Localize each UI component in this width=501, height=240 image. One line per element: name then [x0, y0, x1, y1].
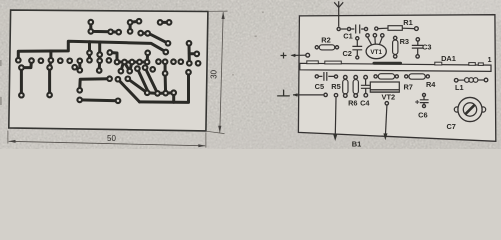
resistor R4 body [409, 74, 425, 79]
paper background [0, 0, 501, 149]
pad C5 right [334, 75, 337, 78]
wire: knot riser 1 [121, 62, 124, 71]
transistor VT1 legs [368, 37, 383, 45]
resistor R1 body [388, 26, 402, 31]
wire: ground lead line [293, 94, 323, 96]
pad R1 left [375, 27, 378, 30]
pad R2 right [335, 46, 338, 49]
resistor R6 body [353, 80, 358, 94]
svg-text:C7: C7 [446, 122, 455, 131]
plus supply arrowhead [291, 54, 296, 57]
resistor R2 body [319, 45, 334, 50]
wire: stub trace to pad x50.9 [49, 51, 52, 58]
pad R3 top [394, 36, 397, 39]
pad C6 top [423, 93, 426, 96]
wire: bottom left leg A [20, 68, 23, 96]
svg-text:L1: L1 [455, 83, 464, 92]
wire: long stepped trace [18, 41, 166, 58]
pad comb row 2 [135, 66, 140, 71]
DA1 pin bump 4 [469, 63, 476, 66]
wire: mid-left L trace [80, 79, 110, 90]
variable capacitor C7 left ear [454, 107, 459, 112]
dimension 50 line [9, 141, 206, 146]
svg-text:B1: B1 [352, 139, 361, 148]
ground symbol [277, 90, 290, 96]
pad legs bottoms [19, 93, 24, 98]
pad C3 bottom [416, 55, 419, 58]
wire: comb long diagonal A [118, 79, 140, 102]
wire: R1 right [402, 27, 414, 29]
pad R5 bottom [344, 94, 348, 98]
wire: comb long diagonal B [128, 79, 147, 93]
DA1 pin bump 1 [307, 61, 319, 64]
capacitor C2 [352, 40, 362, 56]
wire: upper diagonal chain [141, 33, 167, 43]
wire: chain row link [117, 61, 147, 64]
pad C6 bottom [423, 105, 426, 108]
svg-text:R6: R6 [348, 99, 357, 108]
svg-text:C1: C1 [343, 31, 352, 40]
wire: comb middle row link [147, 91, 174, 95]
pad comb mid row [145, 91, 150, 96]
svg-text:C5: C5 [315, 82, 324, 91]
dimension 30 extension line bottom [206, 131, 225, 133]
svg-text:R2: R2 [321, 36, 330, 45]
pad comb riser top [186, 70, 191, 75]
transistor VT2 lower strip [371, 90, 399, 91]
pads top chains [89, 20, 94, 25]
resistor R3 body [393, 40, 398, 54]
wire: top cluster vertical link [129, 22, 132, 31]
pad R3 bottom [394, 55, 397, 58]
variable capacitor C7 outer [458, 97, 482, 121]
pad R7 right [395, 75, 398, 78]
IC DA1 body [300, 63, 491, 71]
svg-text:C4: C4 [360, 99, 370, 108]
wire: comb fan diagonal 1 [137, 69, 148, 93]
wire: R7 left [378, 75, 396, 77]
pad mid-left L end [77, 88, 82, 93]
wire: stub trace to pad column x99.7 [98, 42, 101, 61]
wire: top cluster diagonal link [130, 21, 139, 22]
wire: comb vertical 3 [164, 64, 168, 94]
wire: chain elbow [110, 53, 117, 63]
dimension 50 right arrow [198, 144, 205, 147]
battery B1 left arrowhead [333, 134, 337, 141]
variable capacitor C7 rotor [463, 103, 476, 116]
wire: comb fan diagonal 2 [145, 68, 157, 94]
svg-text:C2: C2 [342, 49, 351, 58]
pads VT1 legs [366, 34, 369, 37]
dimension 30 bottom arrow [218, 126, 221, 133]
svg-text:C3: C3 [422, 42, 431, 51]
pad R4 right [426, 75, 429, 78]
wire: battery B1 right lead [386, 105, 387, 133]
pad R5 top [344, 75, 348, 79]
pad L trace right end [107, 76, 112, 81]
transistor VT2 body [370, 82, 399, 92]
pad C1 right [364, 27, 367, 30]
pad L1 left [454, 79, 458, 83]
wire: comb pad stub [172, 93, 175, 103]
pad R1 right [415, 27, 419, 31]
pad L1 right [484, 78, 488, 82]
dimension 50 extension line left [7, 131, 9, 144]
DA1 pin bump 2 [325, 61, 342, 64]
pad C5 left [315, 75, 318, 78]
variable capacitor C7 slot [466, 105, 475, 114]
wire: plus supply arrow line [292, 54, 306, 56]
pad column x89.5 [87, 51, 92, 56]
wire: stub trace to pad column x89.5 [88, 42, 91, 60]
svg-text:VT2: VT2 [382, 92, 396, 101]
pad R4 left [405, 75, 408, 78]
transistor VT1 body [366, 44, 386, 59]
pad C4 bottom [364, 93, 368, 97]
wire: column x79.8 stub [78, 61, 81, 70]
svg-text:R4: R4 [426, 80, 436, 89]
svg-text:1: 1 [487, 55, 491, 64]
pad R6 top [354, 75, 358, 79]
dimension 50 left arrow [9, 140, 16, 143]
transistor VT2 inner line [370, 89, 399, 91]
pad B1 left wire top [334, 94, 337, 97]
pad C1 left [347, 27, 350, 30]
pad mid right [163, 71, 168, 76]
pad column x79.8 [78, 59, 83, 64]
plus supply symbol [281, 53, 287, 59]
pad C4 top [364, 75, 368, 79]
wire: column x99.7 lower stub [98, 61, 102, 71]
capacitor C5 [319, 72, 334, 81]
wire R3 pads stubs [394, 38, 396, 56]
pad column x109.5 [108, 50, 113, 55]
pad plus supply [306, 53, 310, 57]
pad leg tops [19, 65, 24, 70]
dimension 50 extension line right [205, 133, 207, 148]
wire: knot X diagonal [125, 63, 130, 72]
pad mid left floating [72, 65, 77, 70]
pad C2 bottom [356, 56, 359, 59]
pad R2 left [315, 46, 318, 49]
capacitor C1 [351, 25, 364, 34]
wire: battery B1 left lead [334, 98, 337, 135]
wire: chain end vertical link [146, 53, 150, 62]
pad row A [16, 58, 21, 63]
svg-text:30: 30 [209, 69, 218, 78]
wire: comb base bar with right riser [140, 74, 189, 103]
wire: top middle chain [91, 22, 119, 32]
PCB board outline [9, 10, 208, 131]
wire: right vertical with branch [189, 45, 195, 62]
wire: bottom left leg B [50, 61, 51, 95]
svg-text:C6: C6 [418, 110, 427, 119]
svg-text:VT1: VT1 [370, 49, 382, 56]
wire: knot riser 2 [130, 62, 132, 71]
DA1 pin bump 5 [478, 63, 483, 66]
dimension 30 top arrow [222, 12, 225, 19]
wire: R1 left [379, 27, 389, 29]
inductor L1 loops [465, 78, 470, 83]
pad antenna [337, 27, 340, 30]
resistor R5 body [343, 80, 348, 94]
pad C2 top [356, 37, 359, 40]
DA1 dark tab [373, 62, 403, 65]
pad knot pair [119, 69, 124, 74]
svg-text:DA1: DA1 [441, 54, 456, 63]
DA1 pin bump 3 [435, 62, 442, 65]
wire: leg A bar and riser [21, 61, 31, 67]
pad column x99.7 [97, 52, 102, 57]
svg-text:R5: R5 [331, 82, 340, 91]
wire: top right pair link [160, 21, 169, 24]
wire: bottom middle bar [80, 98, 118, 102]
resistor R7 body [378, 74, 394, 79]
pad row B right section [156, 59, 161, 64]
pad VT2 emitter [385, 102, 388, 105]
pad R7 left [374, 75, 377, 78]
antenna W1 [334, 1, 343, 27]
svg-text:50: 50 [107, 134, 116, 143]
pads long diagonal tops [116, 77, 121, 82]
capacitor C3 [412, 41, 423, 54]
pad chain row [115, 60, 120, 65]
inductor L1 right wire [478, 79, 484, 81]
capacitor C6 plus [415, 100, 419, 104]
inductor L1 [458, 79, 464, 81]
svg-text:R1: R1 [403, 18, 412, 27]
svg-text:R7: R7 [403, 82, 412, 91]
board outline [298, 15, 495, 142]
pad ground wire end [324, 93, 327, 96]
dimension 30 extension line top [208, 10, 228, 12]
wire: antenna pad to C1 [341, 28, 347, 30]
dimension 30 line [220, 12, 223, 132]
variable capacitor C7 right ear [481, 107, 486, 112]
pad R6 bottom [354, 94, 358, 98]
pad C3 top [416, 38, 419, 41]
battery B1 right arrowhead [383, 133, 387, 140]
ground arrowhead [293, 93, 298, 96]
pads bottom middle bar [77, 98, 82, 103]
svg-text:R3: R3 [400, 37, 409, 46]
capacitor C6 [420, 97, 429, 105]
capacitor C4 [361, 79, 371, 93]
pad above chain end [145, 51, 150, 56]
